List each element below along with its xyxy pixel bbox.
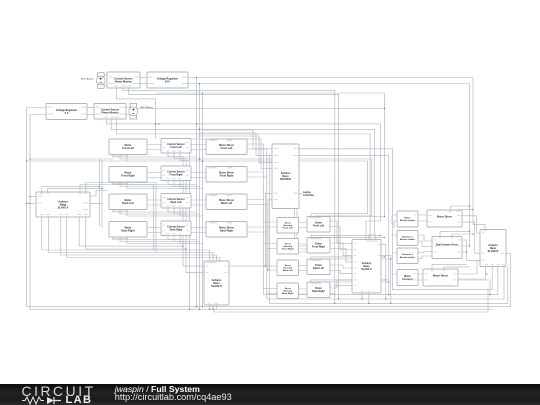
circuitlab logo CIRCUIT [22, 384, 96, 399]
wire act1 to dualact [418, 235, 432, 247]
wire motor conveyor to MD [418, 274, 423, 280]
pin labels slave C right bottom [361, 244, 381, 291]
svg-text:SLAVE D: SLAVE D [211, 285, 222, 288]
wire master left low pins down [265, 193, 272, 270]
svg-text:Back Left: Back Left [313, 267, 324, 270]
wire CS bottom drops row2 [168, 180, 190, 189]
wire master right pin2 down [299, 156, 389, 295]
wire bus row3 a [113, 210, 197, 213]
actuator 2 bucket ladder [397, 248, 418, 264]
pin labels CS B2 [96, 107, 126, 118]
svg-text:24 V: 24 V [165, 80, 170, 83]
servo steering Front Left [277, 218, 299, 234]
pin label motor Front Left [112, 155, 128, 158]
wire bus row1 a [113, 155, 197, 158]
wire driver1 to slaveC [330, 221, 352, 250]
svg-text:Actuator 2: Actuator 2 [402, 253, 414, 256]
pin label motor Back Left [112, 210, 128, 213]
wire trunk x153 down [154, 183, 157, 253]
motor driver Front Right [206, 167, 247, 183]
wire BEC top feed y108 [137, 108, 385, 110]
wire CS-MD link row4 [191, 228, 206, 233]
wire master left pin4 [190, 139, 273, 169]
wire driver4 to slaveC [330, 280, 352, 294]
pin labels CS A1 [109, 77, 140, 87]
svg-text:Conveyor: Conveyor [402, 278, 413, 281]
wire VR5 to CS B2 p1 [87, 107, 94, 109]
pin marks current sensor Front Right [163, 170, 190, 179]
wire CS-MD link row1 [191, 145, 206, 150]
pin label motor driver Back Right [209, 222, 232, 223]
pin label driver Front Right [310, 238, 321, 239]
battery V2 BEC battery [129, 103, 154, 119]
svg-text:Back Right: Back Right [170, 229, 183, 232]
pin marks MD conveyor [425, 270, 457, 280]
wire servo row3 left stubs [229, 266, 277, 270]
pin labels slave C left [354, 243, 357, 286]
wire slaveC right pin2 [381, 256, 391, 304]
wire trunk x186 [186, 159, 204, 273]
wire MD right pins row3 [247, 200, 267, 205]
wire CS bottom drops row3 [168, 208, 190, 217]
wire driver4 top pins [311, 280, 389, 284]
wire CS bottom drops row1 [168, 152, 190, 161]
arduino mega U5 SLAVE A [36, 192, 90, 217]
driver Front Right [307, 238, 330, 254]
pin label motor driver Back Left [209, 195, 232, 196]
svg-text:Steering: Steering [283, 290, 292, 293]
wire bus row2 b [120, 182, 200, 187]
wire below master v2 [297, 209, 307, 253]
pin labels mega [38, 193, 89, 215]
wire bus row3 b [120, 210, 200, 215]
svg-text:Front Left: Front Left [170, 146, 181, 149]
wire MD right pins row1 [247, 144, 267, 149]
logo resistor zigzag and diode symbol [22, 396, 68, 405]
wire right col left stubs [392, 235, 397, 274]
motor driver Front Left [206, 139, 247, 155]
svg-text:Steering: Steering [283, 245, 292, 248]
wire motor-CS link row3 [147, 200, 161, 205]
wire motor bucket to MD [418, 215, 427, 221]
wire CS B2 to BEC battery top [126, 107, 130, 109]
wire driver2 top pins [311, 235, 384, 239]
wire MD conveyor top pins [432, 265, 470, 269]
wire VR5 in1 left trunk down to bottom bus E [27, 108, 511, 307]
wire MD right pins row4 [247, 227, 267, 232]
driver Back Right [307, 282, 330, 298]
wire servo row2 left stubs [264, 244, 278, 249]
wire trunk x183 [183, 157, 204, 267]
wire mega right pin2 [90, 203, 102, 205]
wire CS A1 bottom pin1 drop [116, 88, 155, 139]
pin labels VR24 [149, 77, 188, 84]
pin labels slave B [482, 230, 506, 265]
wire bus row4 c [127, 237, 203, 244]
pin label motor Back Right [112, 237, 128, 240]
wire CS B2 to BEC battery bot [126, 114, 130, 116]
wire dualact top pins [440, 231, 473, 236]
svg-text:Micro Battery: Micro Battery [81, 77, 94, 80]
driver Front Left [307, 217, 330, 233]
wire servo-driver link row4 [299, 289, 308, 294]
svg-text:Motor: Motor [404, 216, 410, 219]
wire trunk x189.5 [189, 161, 191, 310]
wire servo-driver link row2 [299, 244, 308, 249]
svg-text:Steering: Steering [283, 224, 292, 227]
wire slave mid bottom pins [210, 305, 217, 309]
arduino nano U7 SLAVE D [204, 261, 229, 305]
motor driver Back Right [206, 222, 247, 238]
pin marks current sensor Front Left [163, 142, 190, 151]
wire MD bucket top pins [451, 206, 473, 211]
wire slaveB bottom pin1 hook [430, 267, 486, 279]
arduino nano U9 SLAVE B [480, 230, 506, 267]
wire nest x374 jog to slaveC top pin [369, 235, 375, 240]
svg-text:Power Monitor: Power Monitor [115, 80, 132, 83]
pin label driver Front Left [310, 217, 321, 218]
servo steering Back Right [277, 283, 299, 299]
wire act2 to dualact [418, 252, 432, 259]
pin label motor driver Front Left [209, 140, 232, 141]
wire bus row4 b [120, 237, 200, 242]
wire CS B2 bottom pin3 long feed [117, 119, 370, 243]
svg-text:Steering: Steering [283, 267, 292, 270]
wire below master v1 [295, 209, 308, 247]
wire motor-CS link row4 [147, 228, 161, 233]
actuator 1 bucket ladder [397, 231, 418, 246]
motor Front Right [109, 167, 147, 183]
wire bus row2 a [113, 182, 197, 185]
wire bus row1 ext b [200, 159, 372, 218]
wire master right pin1 down [299, 149, 492, 290]
wire motor-CS link row1 [147, 145, 161, 150]
motor Back Right [109, 222, 147, 238]
svg-text:SLAVE B: SLAVE B [488, 250, 499, 253]
current sensor Front Left [161, 139, 191, 154]
pin marks current sensor Back Right [163, 225, 190, 234]
footer title [115, 385, 200, 395]
wire 24V rail to right trunk then slaveB top [188, 78, 485, 230]
wire trunk x196.5 [196, 78, 198, 307]
wire bus row1 ext c [203, 161, 368, 218]
wire CS A1 bottom pin3 long feed [129, 88, 339, 299]
wire mega right jog [90, 191, 109, 197]
driver Back Left [307, 259, 330, 275]
wire bus row1 c [127, 155, 203, 162]
wire servo-driver link row3 [299, 266, 308, 271]
svg-text:Laptop: Laptop [303, 191, 311, 194]
wire bus row1 left ext [27, 160, 128, 162]
wire driver2 to slaveC [330, 243, 352, 262]
wire dualact right to slaveB [462, 240, 480, 260]
arduino nano U8 SLAVE C [352, 240, 381, 294]
wire bus row1 b [30, 155, 200, 160]
dual actuator driver [432, 237, 462, 259]
servo steering Front Right [277, 239, 299, 255]
svg-text:Back Right: Back Right [282, 292, 294, 295]
wire master usb stub [299, 192, 303, 194]
footer url [115, 393, 232, 403]
pin label motor driver Front Right [209, 167, 232, 168]
pin labels master [274, 148, 299, 200]
footer bar [0, 384, 540, 405]
pin marks MD bucket [429, 211, 461, 222]
pin label motor Front Right [112, 182, 128, 185]
wire VR5 to CS B2 p2 [87, 114, 94, 116]
pin marks motor conveyor [413, 273, 416, 280]
arduino nano U6 MASTER [272, 144, 299, 209]
current sensor U4 power monitor BEC [94, 104, 126, 120]
svg-text:Back Left: Back Left [122, 202, 133, 205]
wire driver3 to slaveC [330, 265, 352, 274]
svg-text:Back Left: Back Left [283, 269, 293, 272]
wire bus row4 a [113, 237, 197, 240]
wire feed y93 to nest x384 [156, 93, 385, 217]
svg-text:Front Left: Front Left [313, 225, 324, 228]
wire motor col bus v2 [101, 161, 103, 229]
voltage regulator U2 24V [147, 72, 188, 88]
wire 24V gnd to right trunk [188, 84, 470, 247]
pin marks current sensor Back Left [163, 197, 190, 206]
motor Front Left [109, 139, 147, 155]
wire motor-CS link row2 [147, 173, 161, 178]
wire CS B2 bottom pin2 long feed [111, 119, 375, 235]
wire nest x380 into slaveC area [352, 221, 381, 241]
svg-text:Back Right: Back Right [312, 290, 325, 293]
wire master left pin1 [203, 130, 273, 149]
svg-text:Front Right: Front Right [282, 248, 294, 251]
svg-text:SLAVE A: SLAVE A [58, 206, 69, 209]
svg-text:Front Left: Front Left [122, 147, 134, 150]
wire master left pin2 [200, 133, 273, 156]
wire MD bucket right pins to slaveB [462, 216, 480, 253]
pin label slave D top [207, 261, 217, 264]
circuitlab logo LAB [66, 394, 93, 405]
current sensor Back Right [161, 221, 191, 236]
wire slave mid top staircase [42, 217, 220, 261]
svg-text:SLAVE C: SLAVE C [361, 268, 372, 271]
wire mega top pin1 up right [42, 186, 102, 192]
wire slaveC bottom pins [362, 293, 369, 303]
wire MD right pins row2 [247, 172, 267, 177]
wire trunk x199.5 [199, 84, 201, 310]
wire CS A1 bottom pin2 long feed [123, 88, 335, 303]
wire CS B2 bottom pin1 long feed [107, 119, 381, 221]
svg-text:Motor Driver: Motor Driver [437, 215, 452, 218]
motor conveyor [397, 270, 418, 286]
wire bottom line E3 [214, 289, 488, 312]
wire driver3 top pins [311, 257, 391, 261]
wire servo row1 left stubs [264, 222, 278, 227]
wire mid trunk x269 [270, 154, 508, 303]
voltage regulator U3 5V [46, 104, 87, 120]
svg-text:Back Right: Back Right [121, 230, 134, 233]
svg-text:MASTER: MASTER [280, 178, 291, 181]
wire MD conveyor right pins [458, 260, 490, 294]
wire servo-driver link row1 [299, 223, 308, 228]
svg-text:Back Left: Back Left [221, 202, 232, 205]
svg-text:Actuator 1: Actuator 1 [402, 235, 414, 238]
pin marks motor bucket [413, 214, 416, 221]
wire slaveC right pin1 [381, 245, 386, 299]
svg-text:Front Left: Front Left [283, 227, 293, 230]
wire bus row3 c [127, 210, 203, 217]
wire motor col bus v1 [99, 159, 101, 227]
svg-text:Power Monitor: Power Monitor [101, 112, 118, 115]
wire battery A top tab to CS A1 [104, 74, 107, 76]
svg-text:Bucket Ladder: Bucket Ladder [400, 256, 415, 259]
svg-text:Back Left: Back Left [171, 201, 182, 204]
wire CS A1 out2 to VR24 [140, 83, 147, 85]
wire trunk x202.5 [202, 93, 204, 307]
svg-text:Front Right: Front Right [312, 246, 325, 249]
svg-text:Bucket Ladder: Bucket Ladder [400, 219, 415, 222]
wire servo row4 left stubs [264, 289, 278, 294]
svg-text:BEC Battery: BEC Battery [141, 106, 154, 109]
current sensor U1 power monitor main [107, 72, 140, 88]
battery V1 micro battery [81, 73, 105, 89]
motor bucket ladder [397, 211, 418, 227]
svg-text:5 V: 5 V [65, 112, 69, 115]
wire mega top pin3 up right [80, 183, 156, 193]
wire mega left pins [27, 197, 37, 204]
pin label slave C top [366, 240, 378, 243]
svg-text:Front Right: Front Right [220, 175, 234, 178]
wire slaveC top pin2 [374, 235, 377, 240]
svg-text:Front Left: Front Left [221, 147, 233, 150]
motor driver Back Left [206, 194, 247, 210]
wire mid trunk x263 [264, 144, 498, 295]
motor Back Left [109, 194, 147, 210]
svg-text:Motor Driver: Motor Driver [433, 274, 448, 277]
wire VR5 in2 left trunk down to bottom bus D [30, 115, 492, 310]
wire CS A1 out1 to VR24 [140, 77, 147, 79]
svg-text:Back Right: Back Right [220, 230, 233, 233]
wire bus row2 c [127, 182, 203, 189]
svg-text:Front Right: Front Right [121, 175, 135, 178]
wire mid trunk x266 [267, 149, 504, 299]
wire battery A bottom tab to CS A1 [104, 85, 107, 87]
motor driver bucket ladder [427, 210, 462, 227]
pin label driver Back Right [310, 283, 321, 284]
svg-text:Controller: Controller [303, 194, 314, 197]
svg-text:Dual Actuator Driver: Dual Actuator Driver [436, 244, 458, 247]
pin labels VR5 [48, 107, 87, 115]
servo steering Back Left [277, 260, 299, 276]
pin labels slave D sides [206, 266, 228, 304]
wire CS-MD link row2 [191, 173, 206, 178]
pin marks dual actuator driver [434, 238, 461, 253]
wire nest x384 stub to driver col [330, 216, 384, 218]
motor driver conveyor [423, 269, 458, 286]
pin label driver Back Left [310, 260, 321, 261]
wire CS-MD link row3 [191, 200, 206, 205]
wire CS bottom drops row4 [168, 235, 190, 244]
svg-text:Bucket Ladder: Bucket Ladder [400, 238, 415, 241]
wire master left pin3 [197, 136, 273, 163]
current sensor Front Right [161, 166, 191, 181]
svg-text:Front Right: Front Right [170, 174, 183, 177]
wire bucket top feeds [392, 215, 397, 228]
current sensor Back Left [161, 194, 191, 209]
wire mega bottom pins 5 6 [79, 217, 186, 249]
laptop controller label [303, 191, 314, 197]
